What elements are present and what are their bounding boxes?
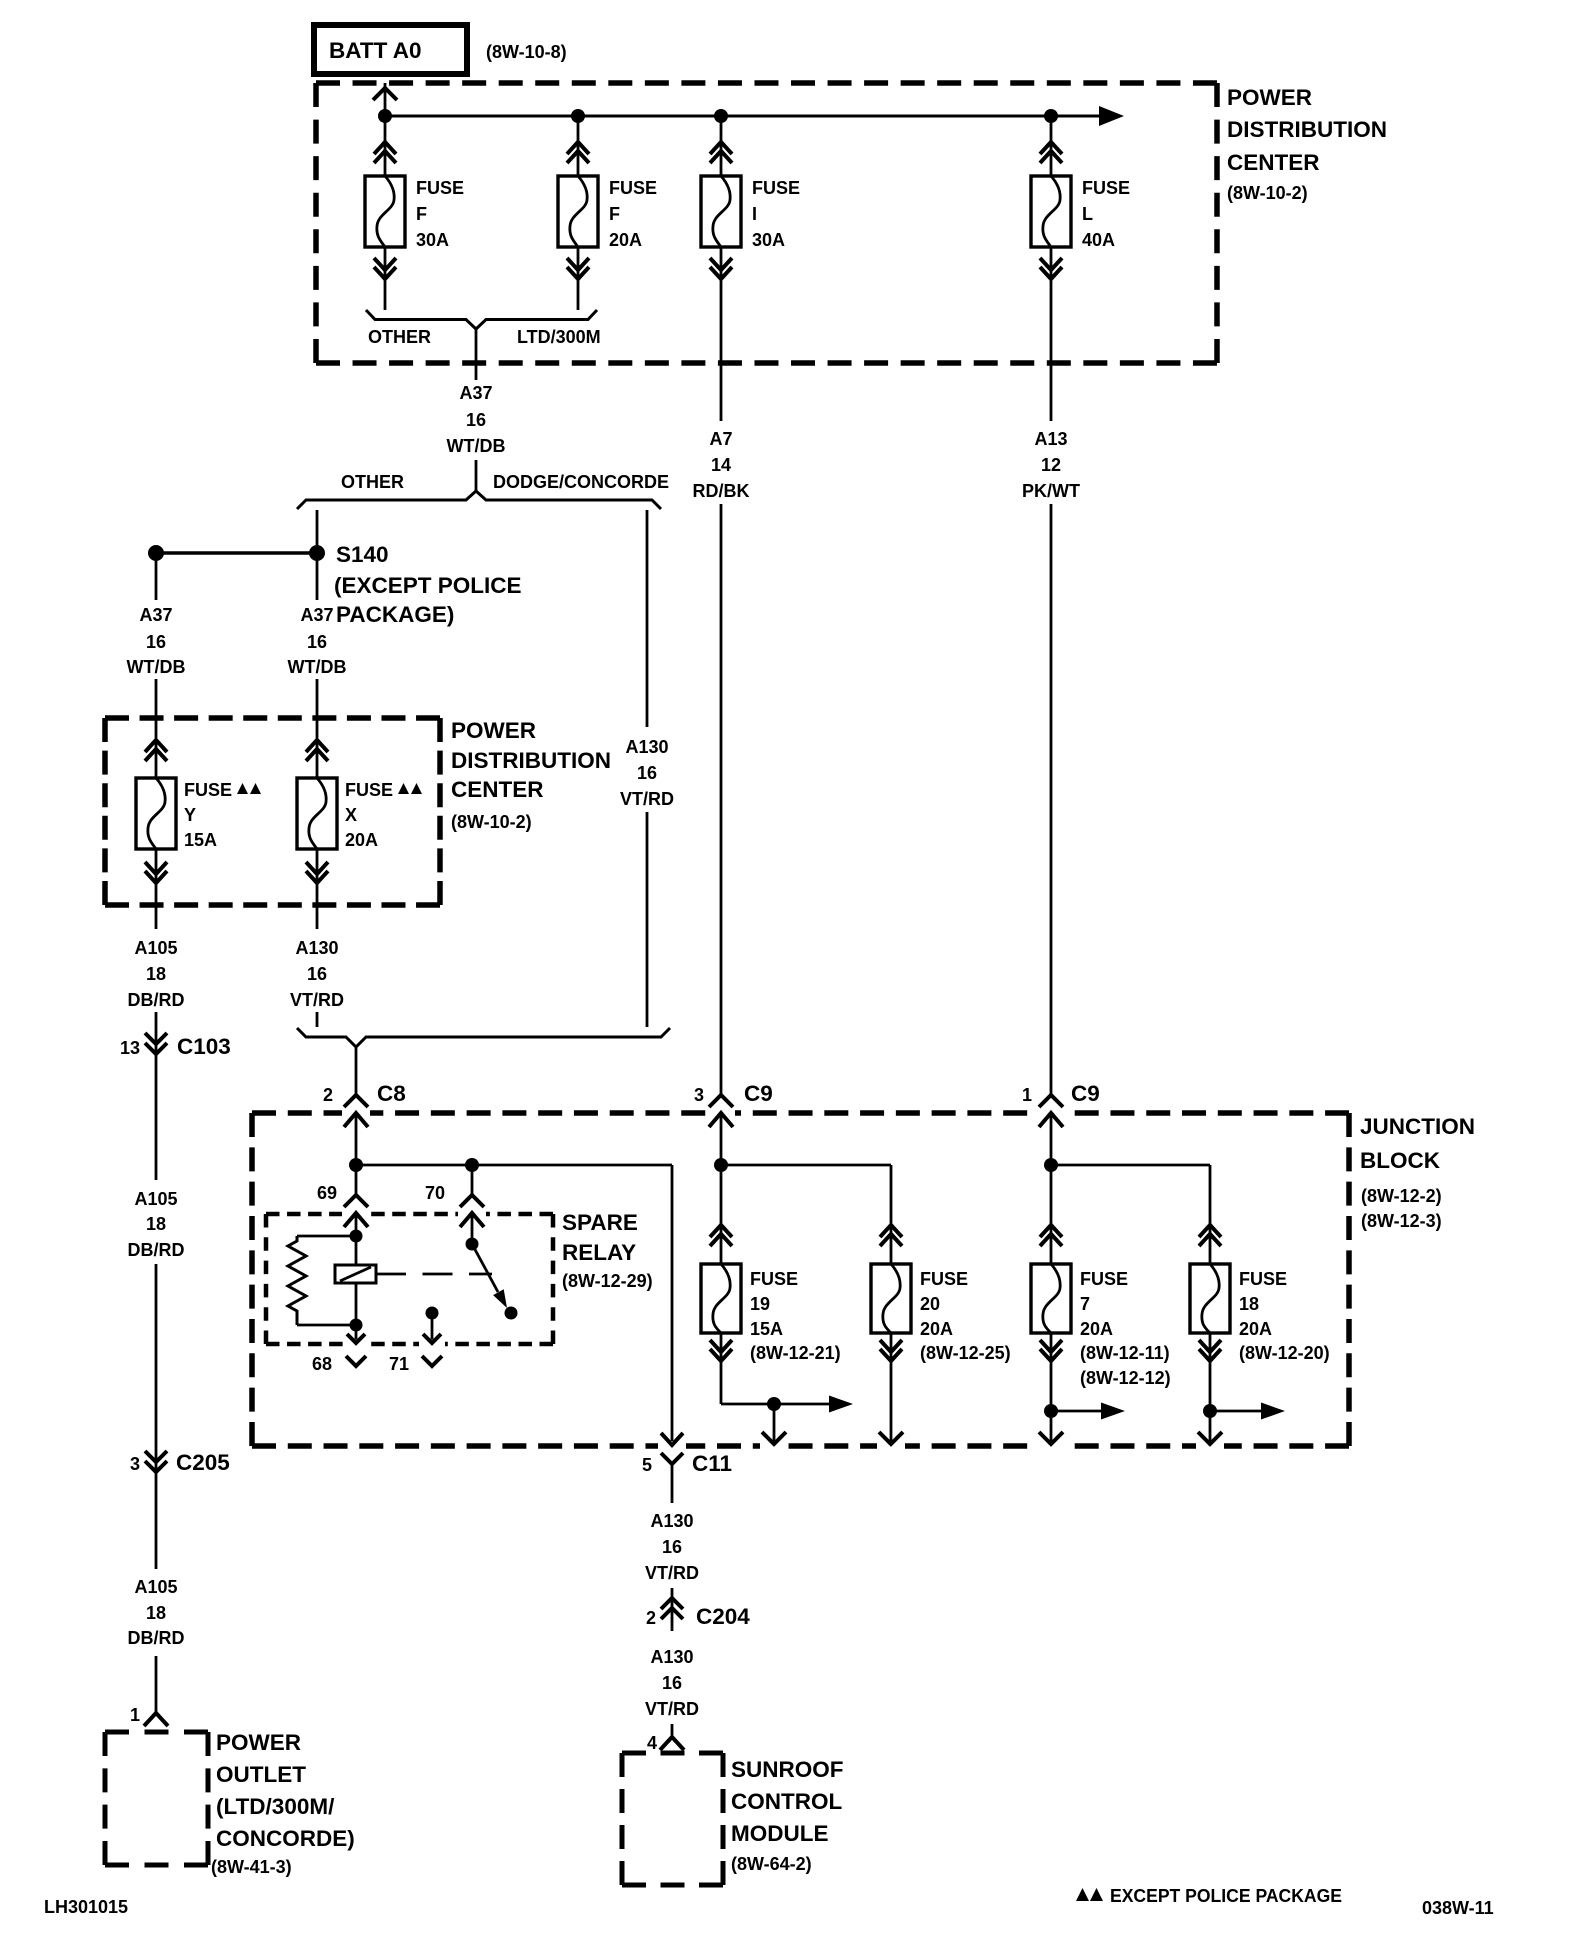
svg-text:LH301015: LH301015: [44, 1897, 128, 1917]
svg-text:20A: 20A: [1239, 1319, 1272, 1339]
svg-text:F: F: [609, 204, 620, 224]
svg-text:16: 16: [466, 410, 486, 430]
svg-text:DB/RD: DB/RD: [128, 990, 185, 1010]
svg-text:C103: C103: [177, 1034, 231, 1059]
svg-text:5: 5: [642, 1455, 652, 1475]
svg-text:(8W-10-8): (8W-10-8): [486, 42, 567, 62]
svg-text:(8W-12-20): (8W-12-20): [1239, 1343, 1330, 1363]
svg-text:C9: C9: [744, 1081, 773, 1106]
svg-text:FUSE: FUSE: [1080, 1269, 1128, 1289]
svg-text:16: 16: [662, 1673, 682, 1693]
svg-text:C9: C9: [1071, 1081, 1100, 1106]
svg-text:SUNROOF: SUNROOF: [731, 1757, 844, 1782]
svg-text:A130: A130: [625, 737, 668, 757]
svg-text:WT/DB: WT/DB: [288, 657, 347, 677]
svg-text:30A: 30A: [752, 230, 785, 250]
svg-text:3: 3: [130, 1454, 140, 1474]
svg-text:30A: 30A: [416, 230, 449, 250]
svg-text:FUSE: FUSE: [416, 178, 464, 198]
svg-text:LTD/300M: LTD/300M: [517, 327, 601, 347]
svg-text:(8W-12-25): (8W-12-25): [920, 1343, 1011, 1363]
svg-text:1: 1: [130, 1705, 140, 1725]
svg-text:FUSE: FUSE: [345, 780, 393, 800]
svg-text:A37: A37: [300, 605, 333, 625]
svg-text:14: 14: [711, 455, 731, 475]
svg-text:3: 3: [694, 1085, 704, 1105]
svg-text:X: X: [345, 805, 357, 825]
svg-text:12: 12: [1041, 455, 1061, 475]
svg-text:CONTROL: CONTROL: [731, 1789, 842, 1814]
svg-text:JUNCTION: JUNCTION: [1360, 1114, 1475, 1139]
svg-text:(8W-10-2): (8W-10-2): [451, 812, 532, 832]
svg-text:(8W-64-2): (8W-64-2): [731, 1854, 812, 1874]
svg-text:FUSE: FUSE: [1082, 178, 1130, 198]
svg-text:FUSE: FUSE: [1239, 1269, 1287, 1289]
svg-text:16: 16: [637, 763, 657, 783]
svg-text:FUSE: FUSE: [752, 178, 800, 198]
svg-text:A130: A130: [295, 938, 338, 958]
svg-text:2: 2: [646, 1608, 656, 1628]
svg-text:DB/RD: DB/RD: [128, 1240, 185, 1260]
svg-text:(8W-10-2): (8W-10-2): [1227, 183, 1308, 203]
svg-text:1: 1: [1022, 1085, 1032, 1105]
svg-text:A105: A105: [134, 1189, 177, 1209]
svg-text:A130: A130: [650, 1511, 693, 1531]
svg-text:(8W-12-11): (8W-12-11): [1080, 1343, 1170, 1363]
svg-text:71: 71: [389, 1354, 409, 1374]
svg-text:DB/RD: DB/RD: [128, 1628, 185, 1648]
svg-text:A37: A37: [459, 383, 492, 403]
svg-text:(8W-12-29): (8W-12-29): [562, 1271, 653, 1291]
svg-text:PACKAGE): PACKAGE): [336, 602, 454, 627]
svg-text:20A: 20A: [609, 230, 642, 250]
svg-text:18: 18: [146, 1603, 166, 1623]
svg-text:OUTLET: OUTLET: [216, 1762, 306, 1787]
svg-text:20: 20: [920, 1294, 940, 1314]
svg-text:C11: C11: [692, 1451, 732, 1476]
svg-text:A37: A37: [139, 605, 172, 625]
svg-text:CENTER: CENTER: [451, 777, 544, 802]
svg-text:16: 16: [662, 1537, 682, 1557]
svg-text:20A: 20A: [345, 830, 378, 850]
svg-text:A13: A13: [1034, 429, 1067, 449]
svg-text:(8W-12-21): (8W-12-21): [750, 1343, 841, 1363]
svg-text:DISTRIBUTION: DISTRIBUTION: [451, 748, 611, 773]
svg-text:15A: 15A: [750, 1319, 783, 1339]
svg-text:20A: 20A: [1080, 1319, 1113, 1339]
svg-text:19: 19: [750, 1294, 770, 1314]
svg-text:038W-11: 038W-11: [1422, 1898, 1494, 1918]
svg-text:VT/RD: VT/RD: [620, 789, 674, 809]
svg-text:OTHER: OTHER: [341, 472, 404, 492]
svg-text:WT/DB: WT/DB: [127, 657, 186, 677]
svg-text:SPARE: SPARE: [562, 1210, 638, 1235]
svg-text:S140: S140: [336, 542, 389, 567]
svg-text:BLOCK: BLOCK: [1360, 1148, 1441, 1173]
svg-text:A105: A105: [134, 1577, 177, 1597]
svg-text:FUSE: FUSE: [750, 1269, 798, 1289]
svg-text:16: 16: [146, 632, 166, 652]
svg-text:C205: C205: [176, 1450, 230, 1475]
svg-text:FUSE: FUSE: [609, 178, 657, 198]
svg-text:CONCORDE): CONCORDE): [216, 1826, 355, 1851]
svg-text:18: 18: [146, 1214, 166, 1234]
svg-text:POWER: POWER: [216, 1730, 301, 1755]
svg-text:VT/RD: VT/RD: [290, 990, 344, 1010]
svg-text:(EXCEPT POLICE: (EXCEPT POLICE: [334, 573, 522, 598]
svg-text:A130: A130: [650, 1647, 693, 1667]
svg-text:(8W-12-12): (8W-12-12): [1080, 1368, 1171, 1388]
svg-text:16: 16: [307, 632, 327, 652]
svg-text:(8W-12-2): (8W-12-2): [1361, 1186, 1442, 1206]
svg-text:EXCEPT POLICE PACKAGE: EXCEPT POLICE PACKAGE: [1110, 1886, 1342, 1906]
svg-text:MODULE: MODULE: [731, 1821, 829, 1846]
svg-text:POWER: POWER: [1227, 85, 1312, 110]
svg-text:L: L: [1082, 204, 1093, 224]
svg-text:POWER: POWER: [451, 718, 536, 743]
svg-text:40A: 40A: [1082, 230, 1115, 250]
svg-text:DODGE/CONCORDE: DODGE/CONCORDE: [493, 472, 669, 492]
svg-text:OTHER: OTHER: [368, 327, 431, 347]
svg-text:7: 7: [1080, 1294, 1090, 1314]
svg-text:2: 2: [323, 1085, 333, 1105]
svg-text:C204: C204: [696, 1604, 750, 1629]
svg-text:20A: 20A: [920, 1319, 953, 1339]
svg-text:RD/BK: RD/BK: [693, 481, 750, 501]
svg-text:Y: Y: [184, 805, 196, 825]
svg-text:18: 18: [146, 964, 166, 984]
svg-text:4: 4: [647, 1733, 657, 1753]
svg-text:VT/RD: VT/RD: [645, 1699, 699, 1719]
svg-text:69: 69: [317, 1183, 337, 1203]
svg-text:I: I: [752, 204, 757, 224]
svg-text:F: F: [416, 204, 427, 224]
svg-text:(LTD/300M/: (LTD/300M/: [216, 1794, 335, 1819]
svg-text:BATT A0: BATT A0: [329, 38, 422, 63]
svg-text:FUSE: FUSE: [920, 1269, 968, 1289]
svg-text:VT/RD: VT/RD: [645, 1563, 699, 1583]
svg-text:(8W-12-3): (8W-12-3): [1361, 1211, 1442, 1231]
svg-text:(8W-41-3): (8W-41-3): [211, 1857, 292, 1877]
svg-text:RELAY: RELAY: [562, 1240, 636, 1265]
svg-text:WT/DB: WT/DB: [447, 436, 506, 456]
svg-text:FUSE: FUSE: [184, 780, 232, 800]
svg-text:15A: 15A: [184, 830, 217, 850]
svg-text:70: 70: [425, 1183, 445, 1203]
svg-text:13: 13: [120, 1038, 140, 1058]
svg-text:16: 16: [307, 964, 327, 984]
svg-text:DISTRIBUTION: DISTRIBUTION: [1227, 117, 1387, 142]
svg-text:A7: A7: [709, 429, 732, 449]
svg-text:68: 68: [312, 1354, 332, 1374]
svg-text:CENTER: CENTER: [1227, 150, 1320, 175]
svg-text:18: 18: [1239, 1294, 1259, 1314]
svg-text:A105: A105: [134, 938, 177, 958]
svg-text:PK/WT: PK/WT: [1022, 481, 1080, 501]
svg-text:C8: C8: [377, 1081, 406, 1106]
